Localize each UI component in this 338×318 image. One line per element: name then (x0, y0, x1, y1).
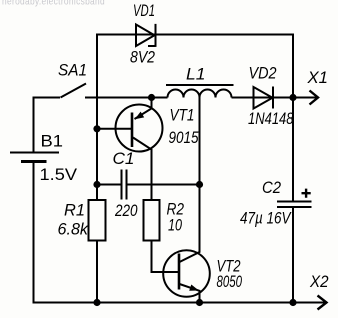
svg-text:47µ 16V: 47µ 16V (240, 210, 292, 228)
svg-text:R1: R1 (64, 202, 85, 220)
transistor VT1 collector lead (133, 138, 152, 201)
resistor R2 body (144, 200, 160, 241)
wire battery negative down (33, 163, 35, 303)
junction node R1 bottom (93, 299, 100, 306)
transistor VT2 base bar (178, 254, 181, 290)
switch SA1 blade (61, 84, 87, 98)
diode VD2 cathode bar (272, 87, 274, 109)
svg-text:8050: 8050 (217, 273, 243, 291)
svg-text:10: 10 (168, 217, 183, 235)
svg-text:C1: C1 (113, 150, 135, 168)
junction node VT2 emitter (196, 299, 203, 306)
svg-text:SA1: SA1 (58, 62, 87, 80)
wire C2 column (292, 34, 294, 303)
terminal X2 arrow (318, 296, 327, 310)
junction node X2 (289, 299, 296, 306)
junction node X1 (289, 94, 296, 101)
svg-text:nerodaby.electronicsband: nerodaby.electronicsband (2, 0, 105, 8)
capacitor C2 plates (277, 202, 312, 208)
transistor VT1 emitter lead (135, 98, 152, 120)
wire R1 bottom (96, 241, 98, 303)
svg-text:1N4148: 1N4148 (248, 110, 294, 128)
svg-text:X1: X1 (306, 69, 328, 87)
transistor VT2 collector lead (180, 185, 200, 263)
diode VD1 zener triangle (136, 25, 155, 47)
capacitor C2 plus sign (302, 189, 311, 198)
svg-text:6.8k: 6.8k (58, 221, 89, 239)
capacitor C1 plates (122, 170, 127, 200)
junction node C1 right / tap (196, 181, 203, 188)
battery B1 (10, 152, 59, 154)
junction node rail/VT1 emitter (148, 94, 155, 101)
wire L1 tap down to VT2 collector node (199, 98, 201, 185)
svg-text:8V2: 8V2 (130, 49, 155, 67)
junction node C1 left (93, 181, 100, 188)
wire VT1 base (97, 128, 131, 130)
svg-text:1.5V: 1.5V (40, 166, 78, 184)
svg-text:9015: 9015 (169, 129, 200, 147)
svg-text:VD1: VD1 (133, 2, 155, 20)
diode VD1 zener cathode bar (148, 24, 156, 47)
transistor VT1 emitter arrow (135, 112, 145, 120)
resistor R1 body (89, 200, 106, 241)
wire bottom rail (33, 302, 327, 304)
wire main rail (85, 97, 317, 99)
diode VD2 triangle (254, 87, 273, 109)
svg-text:X2: X2 (309, 273, 328, 291)
junction node VT1 base (93, 125, 100, 132)
wire R2 to VT2 base (152, 241, 179, 273)
svg-text:VT1: VT1 (170, 107, 195, 125)
svg-text:C2: C2 (262, 179, 281, 197)
svg-text:B1: B1 (41, 133, 64, 151)
inductor L1 winding (168, 90, 232, 98)
transistor VT1 circle (116, 105, 163, 152)
wire top rail (97, 34, 293, 36)
svg-text:220: 220 (114, 202, 138, 220)
wire C1 row (97, 184, 200, 186)
wire battery to switch (34, 97, 61, 152)
inductor L1 core (166, 84, 234, 86)
terminal X1 arrow (310, 91, 319, 105)
transistor VT2 emitter lead (180, 284, 200, 303)
wire left vertical (VD1 anode / base / R1 column) (96, 34, 98, 201)
svg-text:L1: L1 (186, 66, 206, 84)
transistor VT2 emitter arrow (189, 285, 199, 291)
transistor VT2 circle (163, 250, 210, 297)
transistor VT1 base bar (131, 113, 134, 148)
svg-text:VD2: VD2 (249, 65, 277, 83)
